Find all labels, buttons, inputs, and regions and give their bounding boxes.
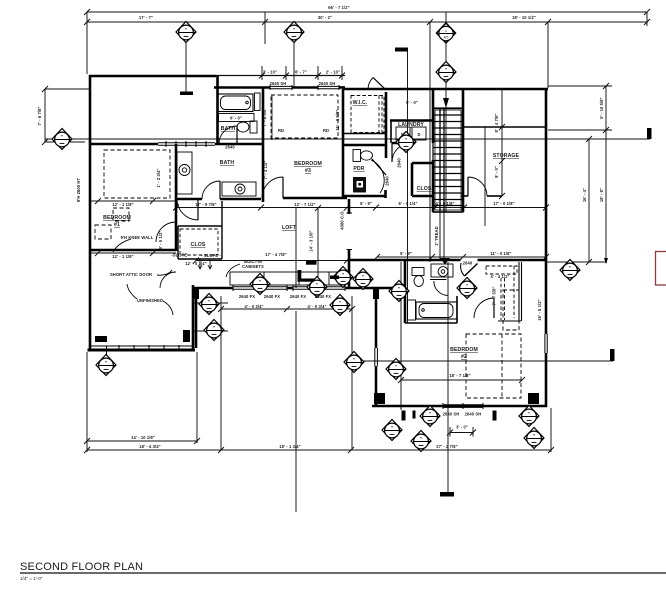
svg-text:2' TREAD: 2' TREAD: [434, 226, 439, 245]
svg-text:16' - 5 1/2": 16' - 5 1/2": [537, 299, 542, 320]
interior dim line y207 across middle: [176, 207, 546, 209]
svg-text:-SLOPE-: -SLOPE-: [171, 253, 189, 258]
leader from marker x294 down: [293, 42, 295, 87]
extension x197 lower: [196, 352, 198, 443]
bedroom2 vanity: [431, 264, 453, 277]
right side vertical dim x589: [588, 139, 590, 262]
wall top right wing y89: [343, 88, 548, 91]
markers left room right wall: [199, 294, 219, 315]
svg-text:UNFINISHED: UNFINISHED: [137, 298, 163, 303]
wall bedroom3 right x343 lower: [342, 89, 345, 199]
svg-text:- SLOPE -: - SLOPE -: [201, 253, 221, 258]
svg-text:#2: #2: [461, 354, 467, 360]
svg-text:17' - 4 7/8": 17' - 4 7/8": [265, 252, 286, 257]
corner posts bedroom2: [374, 393, 385, 404]
storage door leaf: [467, 177, 469, 196]
svg-text:D: D: [417, 132, 420, 137]
svg-text:6' - 7": 6' - 7": [295, 70, 307, 75]
wall laundry right x433: [432, 89, 435, 143]
window mullion ticks bottom wall: [119, 345, 179, 349]
svg-text:7' - 6 5/8": 7' - 6 5/8": [262, 107, 267, 126]
window band east wall bedroom2: [545, 334, 547, 353]
storage top interior y127: [463, 126, 546, 128]
dashed closet wic: [351, 96, 384, 133]
wall top bath2/bedroom3 y87.5: [214, 86, 270, 89]
wall pdr top y145: [343, 144, 385, 147]
long section line y139 across plan: [45, 138, 650, 140]
bedroom2 closet shelves dashed: [486, 266, 517, 320]
pdr door: [372, 159, 386, 175]
wall hall/storage bottom y260: [350, 259, 461, 262]
svg-text:2640 FX: 2640 FX: [315, 294, 331, 299]
wall middle corridor y199: [176, 198, 202, 201]
svg-text:2640 SH: 2640 SH: [443, 412, 460, 417]
bedroom2 closet east wall x520: [519, 262, 522, 321]
laundry door: [391, 143, 393, 162]
svg-text:7' - 7 5/8": 7' - 7 5/8": [492, 286, 497, 305]
wall laundry bottom y143: [392, 142, 412, 145]
dim line top row2 17'-7 / 30'-2 / 18'-10 1/2: [87, 21, 647, 23]
marker left wall: [52, 129, 72, 150]
svg-text:2640: 2640: [397, 158, 402, 168]
bedroom2 toilet: [412, 268, 424, 276]
svg-text:BATH: BATH: [220, 160, 235, 166]
bedroom1 dim line y201: [91, 200, 176, 202]
svg-text:9'H 2600 HT: 9'H 2600 HT: [76, 178, 81, 203]
dashed bed bedroom3: [271, 95, 338, 138]
right side vertical dim x606 5'-10 5/8": [605, 86, 607, 263]
svg-text:2' - 10": 2' - 10": [326, 70, 340, 75]
svg-text:1/4" = 1'-0": 1/4" = 1'-0": [20, 576, 43, 581]
window band top wall 1: [270, 85, 292, 90]
bedroom1 closet door arcs: [156, 222, 176, 242]
bedroom2 tub alcove bottom y323: [405, 322, 457, 324]
bath1 door arc: [219, 181, 221, 199]
svg-text:18' - 4 3/4": 18' - 4 3/4": [139, 444, 160, 449]
svg-text:14' - 10 1/8": 14' - 10 1/8": [131, 435, 155, 440]
marker top 3 (1/A5): [437, 23, 456, 43]
extension line x548 top-right corner: [547, 22, 549, 88]
markers bedroom2 bottom: [382, 420, 402, 441]
svg-text:RD: RD: [278, 128, 284, 133]
svg-text:18' - 10 1/2": 18' - 10 1/2": [512, 15, 536, 20]
svg-text:12' - 1 1/8": 12' - 1 1/8": [112, 254, 133, 259]
dim line bath3 windows 2'-10 / 6'-7 / 2'-10: [216, 75, 345, 77]
wall bedroom2 bottom y406: [372, 405, 547, 408]
svg-text:7' - 3 1/2": 7' - 3 1/2": [263, 160, 268, 179]
bedroom2 windows in bottom wall: [443, 403, 483, 409]
marker storage bottom right: [560, 260, 580, 281]
svg-text:7' - 6 7/8": 7' - 6 7/8": [37, 106, 42, 125]
bath1 vanity left: [177, 152, 192, 194]
svg-text:4' - 0 3/4": 4' - 0 3/4": [244, 304, 263, 309]
extension x551 lower right: [550, 408, 552, 452]
wall bath2 tub divider x217.5: [216, 75, 219, 144]
wall wic bottom y133.5: [344, 133, 386, 135]
svg-text:4' - 0 3/4": 4' - 0 3/4": [307, 304, 326, 309]
svg-text:RD: RD: [323, 128, 329, 133]
svg-text:A5: A5: [444, 35, 450, 40]
bath2b vanity halfwall: [430, 279, 447, 281]
extension line left x87: [86, 12, 88, 74]
pdr toilet: [353, 150, 361, 162]
wall unfinished bottom y350: [88, 349, 196, 352]
svg-text:5' - 9": 5' - 9": [360, 201, 372, 206]
svg-text:#3: #3: [305, 168, 311, 174]
black label box on dim line: [306, 261, 317, 265]
bath2 counter: [219, 114, 255, 122]
storage interior dim x502: [501, 90, 503, 196]
bath1 vanity bottom: [222, 182, 256, 196]
wall laundry top y120.5: [390, 119, 433, 122]
svg-text:5' - 10 5/8": 5' - 10 5/8": [599, 97, 604, 118]
svg-text:PDR: PDR: [353, 166, 364, 172]
svg-text:2640 FX: 2640 FX: [264, 294, 280, 299]
bedroom2 entry door leaf: [465, 264, 478, 277]
window band top wall 2: [318, 85, 339, 90]
bedroom2 tub ledge: [408, 300, 416, 320]
svg-text:18' - 7 1/8": 18' - 7 1/8": [449, 373, 470, 378]
svg-text:2640 SH: 2640 SH: [270, 81, 287, 86]
svg-text:1' - 2 3/4": 1' - 2 3/4": [156, 168, 161, 187]
svg-text:4080 C.O.: 4080 C.O.: [340, 210, 345, 230]
knee wall rail y144 (open rail): [158, 141, 215, 147]
svg-text:6' - 0": 6' - 0": [406, 100, 418, 105]
markers bedroom2 left: [344, 352, 364, 373]
wall loft bottom y288: [194, 287, 233, 290]
bedroom2 door jamb wedge: [440, 258, 450, 265]
laundry washer dryer: [396, 127, 410, 140]
tub bath2: [218, 94, 253, 112]
wall bath2 west x405: [404, 261, 407, 323]
title rule: [20, 572, 666, 574]
bedroom2 window dim 3'-0": [450, 432, 473, 434]
slope arrows left closet: [198, 259, 202, 269]
marker deck diamond: [330, 295, 350, 316]
dashed clos left: [180, 229, 218, 255]
section cut bar left wing (x186): [180, 92, 193, 96]
markers loft bottom wall: [250, 274, 270, 295]
leader built-in cabinets: [226, 264, 240, 277]
svg-text:16' - 4": 16' - 4": [582, 188, 587, 202]
svg-text:3' - 0": 3' - 0": [456, 425, 468, 430]
stairs treads: [433, 109, 463, 206]
toilet bath2: [250, 121, 257, 133]
storage closet wall y196: [461, 195, 468, 197]
dim line overall top 66'-7 1/2": [87, 11, 647, 13]
bedroom3 door leaf+arc: [282, 177, 284, 198]
dim line y257 right wing: [377, 256, 546, 258]
wall attic room bottom y144: [89, 143, 158, 146]
section line vertical x407.5: [407, 51, 409, 323]
svg-text:4' - 0 1/8": 4' - 0 1/8": [435, 201, 454, 206]
tick bar of section line y361: [610, 349, 615, 361]
svg-text:BEDROOM: BEDROOM: [103, 215, 131, 221]
svg-text:SECOND FLOOR PLAN: SECOND FLOOR PLAN: [20, 561, 143, 573]
loft dim line y260: [196, 260, 348, 262]
marker below unfinished: [96, 355, 116, 376]
wall clos x412-433 y163-196: [411, 163, 414, 196]
leader from marker x446 down: [445, 12, 447, 24]
dim extension x401 bedroom2: [400, 262, 402, 410]
stair landing line y212: [433, 211, 463, 213]
deck extension verticals: [220, 296, 222, 450]
bottom dim line y441 14'-10 1/8": [87, 440, 197, 442]
red legend box right edge: [656, 252, 666, 286]
wall pdr right x385.5: [384, 190, 387, 198]
hall door to closet below wall: [197, 199, 199, 220]
wall unfinished right x193: [192, 285, 195, 350]
window band west wall bedroom2: [375, 348, 378, 366]
leader from marker x186 to section bar: [185, 42, 187, 92]
svg-text:W: W: [401, 132, 405, 137]
svg-text:#1: #1: [114, 222, 120, 228]
loft vertical extension x296: [295, 208, 297, 288]
svg-text:27' - 2 7/8": 27' - 2 7/8": [436, 444, 457, 449]
wall bedroom2 west x376: [375, 287, 378, 348]
left closet room walls: [178, 201, 222, 259]
left closet door arcs (clos near loft): [175, 225, 177, 227]
section cut bar top (x401): [395, 48, 408, 52]
leader unfinished: [127, 284, 137, 299]
marker bedroom2 bath: [457, 278, 477, 299]
svg-text:2640 SH: 2640 SH: [319, 81, 336, 86]
wall right x546: [545, 88, 548, 334]
dashed bed bedroom2: [466, 290, 521, 398]
svg-text:30' - 2": 30' - 2": [318, 15, 332, 20]
svg-text:SHORT ATTIC DOOR: SHORT ATTIC DOOR: [110, 272, 152, 277]
wall wic/pdr east x386: [385, 92, 388, 158]
svg-text:17' - 7": 17' - 7": [139, 15, 153, 20]
wall stairs left x433 lower: [432, 160, 435, 212]
marker top 2: [284, 22, 304, 43]
short attic door arc: [160, 272, 176, 288]
bath2b door arc: [434, 281, 448, 296]
section leader below bedroom2 x447: [447, 262, 449, 494]
deck post stubs below wall: [402, 411, 406, 421]
bedroom1 dim line y253: [91, 252, 176, 254]
wall bedroom1 bottom y250: [89, 249, 176, 252]
extension x87 lower: [86, 352, 88, 452]
corner posts unfinished room: [95, 336, 107, 342]
svg-text:12' - 1 1/8": 12' - 1 1/8": [112, 202, 133, 207]
marker top 1: [176, 22, 196, 43]
svg-text:4' - 4 1/2": 4' - 4 1/2": [490, 274, 509, 279]
wall loft bottom-left corner x196: [195, 287, 198, 348]
storage door arc: [468, 177, 487, 196]
svg-text:STORAGE: STORAGE: [493, 153, 520, 159]
closet dashed rod x514: [513, 266, 515, 318]
black L jamb mark: [298, 270, 302, 282]
marker laundry: [396, 132, 416, 153]
post at left of loft wall: [194, 288, 199, 299]
left room marker lines: [193, 302, 228, 304]
svg-text:11' - 0 1/8": 11' - 0 1/8": [490, 251, 511, 256]
bedroom2 tub alcove east x457: [456, 296, 458, 323]
extension vertical x430 through stairs: [429, 22, 431, 262]
svg-text:BEDROOM: BEDROOM: [450, 347, 478, 353]
wall left x90: [89, 75, 92, 351]
bedroom2 dim line y380 18'-7 1/8": [401, 379, 522, 381]
stairs rails continue to hall: [439, 212, 441, 260]
wall bath1 left x176: [175, 144, 178, 251]
dashed bed bedroom1: [95, 150, 170, 239]
svg-text:2640 SH: 2640 SH: [465, 412, 482, 417]
pdr sink dark vanity: [354, 178, 366, 193]
wall stairs right / storage left x463: [462, 89, 465, 212]
marker near bath2 west: [389, 281, 409, 302]
svg-text:5' - 9": 5' - 9": [400, 251, 412, 256]
wall top attic y76: [89, 75, 216, 78]
svg-text:BATH: BATH: [221, 126, 236, 132]
long vertical below deck x296: [295, 311, 297, 512]
svg-text:12' - 7 1/2": 12' - 7 1/2": [294, 202, 315, 207]
svg-text:6' - 0 1/4": 6' - 0 1/4": [398, 201, 417, 206]
svg-text:18' - 1 3/4": 18' - 1 3/4": [279, 444, 300, 449]
shelf right of tub: [255, 93, 261, 111]
svg-text:LOFT: LOFT: [282, 225, 297, 231]
svg-text:CLOS: CLOS: [191, 242, 206, 248]
stairs center rails: [439, 108, 441, 212]
svg-text:14' - 3 1/8": 14' - 3 1/8": [309, 230, 314, 251]
svg-text:BEDROOM: BEDROOM: [294, 161, 322, 167]
section bar bottom: [440, 492, 454, 497]
svg-text:8' - 4 7/8": 8' - 4 7/8": [494, 113, 499, 132]
svg-text:18' - 8": 18' - 8": [599, 188, 604, 202]
bath1 inner door (toilet room) y144: [219, 126, 237, 144]
svg-text:9' - 5 1/2": 9' - 5 1/2": [158, 230, 163, 249]
leader 9h knee wall: [113, 239, 131, 252]
deck dim line y309: [221, 308, 352, 310]
svg-text:2640 FX: 2640 FX: [290, 294, 306, 299]
svg-text:2640: 2640: [385, 176, 390, 186]
wall laundry west x391: [390, 121, 392, 144]
svg-text:LAUNDRY: LAUNDRY: [398, 122, 424, 128]
svg-text:17' - 9 7/8": 17' - 9 7/8": [195, 202, 216, 207]
wall y288 deck to bath: [362, 287, 404, 290]
svg-text:6' - 0": 6' - 0": [230, 116, 242, 121]
loft window bands y288: [233, 285, 345, 291]
right tick bar of section line y139: [647, 128, 652, 139]
unfinished floor inner line y346: [89, 345, 193, 347]
bedroom2 closet bottom y321: [498, 320, 521, 322]
loft vertical dim x318: [317, 208, 319, 287]
left vertical dim 7'-6 7/8": [44, 89, 46, 142]
svg-text:W.I.C.: W.I.C.: [353, 100, 368, 106]
marker stairs top: [436, 62, 456, 83]
wall bath2/bedroom3 divider x263: [262, 88, 265, 203]
stairs outer box: [433, 108, 463, 212]
storage dim line y205 extension x485: [484, 127, 486, 226]
svg-text:CLOS: CLOS: [417, 186, 432, 192]
svg-text:17' - 0 1/8": 17' - 0 1/8": [493, 201, 514, 206]
wall bath2 bottom y144: [215, 143, 263, 146]
svg-text:2640: 2640: [463, 261, 473, 266]
svg-text:9'H KNEE WALL: 9'H KNEE WALL: [121, 235, 154, 240]
built-in cabinets along loft bottom: [230, 272, 345, 285]
wic door: [373, 78, 385, 90]
bedroom2 entry door swing arc: [461, 263, 465, 276]
wall loft right x349 with cased opening: [348, 199, 351, 214]
long section line y361 right wing: [358, 360, 613, 362]
svg-text:66' - 7 1/2": 66' - 7 1/2": [328, 5, 349, 10]
svg-text:2640 FX: 2640 FX: [239, 294, 255, 299]
svg-text:CABINETS: CABINETS: [242, 264, 264, 269]
svg-text:11' - 6 5/8": 11' - 6 5/8": [335, 109, 340, 130]
wall pdr bottom y196: [343, 195, 386, 198]
svg-text:2' - 10": 2' - 10": [263, 70, 277, 75]
bottom dim line y450: [87, 449, 551, 451]
svg-text:12' - 0 3/4": 12' - 0 3/4": [185, 261, 206, 266]
svg-text:2640: 2640: [225, 145, 235, 150]
extension line x647: [646, 12, 648, 26]
bedroom2 closet door: [493, 298, 495, 318]
bedroom2 tub: [416, 302, 457, 319]
marker leader left room: [106, 346, 108, 357]
extension line x265: [264, 12, 266, 44]
svg-text:9' - 0": 9' - 0": [494, 166, 499, 178]
leader short attic door: [157, 270, 172, 275]
